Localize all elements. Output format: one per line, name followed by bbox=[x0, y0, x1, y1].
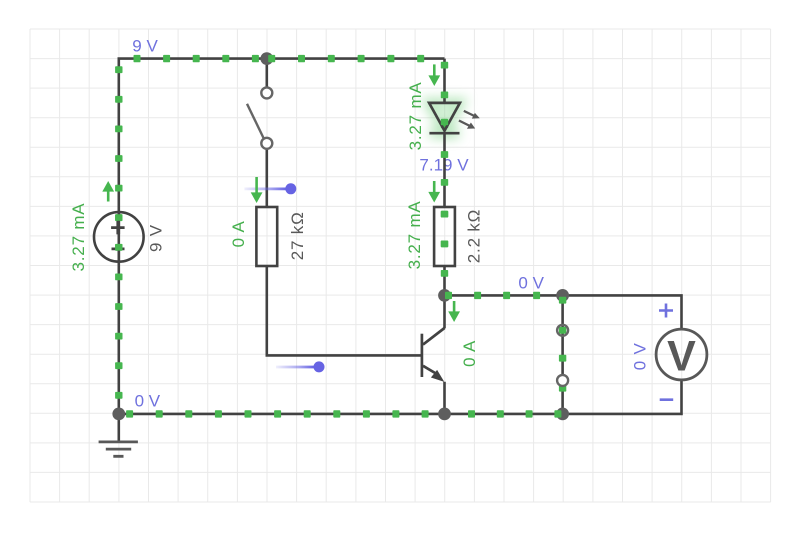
svg-text:0 V: 0 V bbox=[135, 391, 161, 410]
svg-text:0 A: 0 A bbox=[460, 340, 479, 367]
svg-text:2.2 kΩ: 2.2 kΩ bbox=[465, 209, 484, 263]
svg-text:3.27 mA: 3.27 mA bbox=[405, 200, 424, 269]
svg-text:0 V: 0 V bbox=[518, 274, 544, 293]
svg-text:9 V: 9 V bbox=[132, 37, 158, 56]
svg-text:27 kΩ: 27 kΩ bbox=[288, 211, 307, 260]
svg-text:3.27 mA: 3.27 mA bbox=[69, 203, 88, 272]
svg-text:3.27 mA: 3.27 mA bbox=[406, 81, 425, 150]
svg-text:0 A: 0 A bbox=[229, 220, 248, 247]
svg-text:9 V: 9 V bbox=[147, 224, 166, 252]
svg-text:V: V bbox=[667, 333, 696, 381]
svg-text:0 V: 0 V bbox=[630, 342, 649, 370]
